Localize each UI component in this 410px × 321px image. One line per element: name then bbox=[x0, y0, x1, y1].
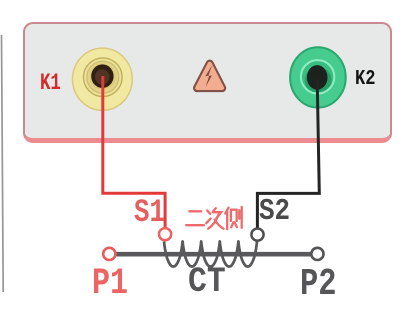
jack K1 (yellow) bbox=[73, 48, 133, 110]
left device edge line bbox=[2, 35, 4, 292]
wire W1 red K1->S1 bbox=[103, 76, 165, 228]
label S2 bbox=[259, 197, 290, 228]
label K2 bbox=[355, 69, 376, 91]
label 二次侧 (secondary side) bbox=[186, 207, 242, 229]
terminal P1 bbox=[103, 248, 115, 260]
wire W2 black K2->S2 bbox=[257, 79, 319, 228]
label P2 bbox=[300, 266, 337, 304]
label S1 bbox=[134, 197, 165, 229]
label K1 bbox=[40, 72, 61, 96]
label P1 bbox=[92, 266, 128, 303]
CT primary bar P1-P2 bbox=[117, 252, 311, 257]
label CT bbox=[188, 266, 226, 301]
CT secondary coil bbox=[164, 241, 257, 266]
terminal S2 bbox=[251, 229, 263, 241]
jack K2 (green) bbox=[290, 47, 346, 107]
panel bbox=[23, 22, 393, 143]
terminal P2 bbox=[311, 248, 323, 260]
terminal S1 bbox=[159, 228, 171, 240]
warning symbol U1 bbox=[194, 61, 225, 91]
